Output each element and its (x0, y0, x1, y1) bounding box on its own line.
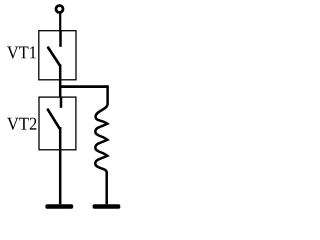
transistor VT1 box (39, 31, 76, 80)
ground (left) (45, 204, 73, 209)
label VT2 (7, 118, 36, 130)
VT1 bottom lead / wire down to VT2 (59, 65, 62, 98)
VT2 switch blade (48, 110, 60, 129)
wire from terminal to VT1 (59, 14, 61, 31)
wire branch to inductor (59, 85, 108, 88)
VT2 top lead (60, 97, 63, 108)
label VT1 (7, 46, 36, 58)
VT2 bottom lead / wire down to ground (59, 127, 62, 204)
inductor L with wire down to ground (95, 85, 107, 204)
VT1 switch blade (48, 48, 60, 66)
transistor VT2 box (39, 97, 76, 150)
VT1 top lead (59, 31, 62, 47)
terminal circle (input node) (56, 6, 63, 13)
ground (right) (93, 204, 121, 209)
